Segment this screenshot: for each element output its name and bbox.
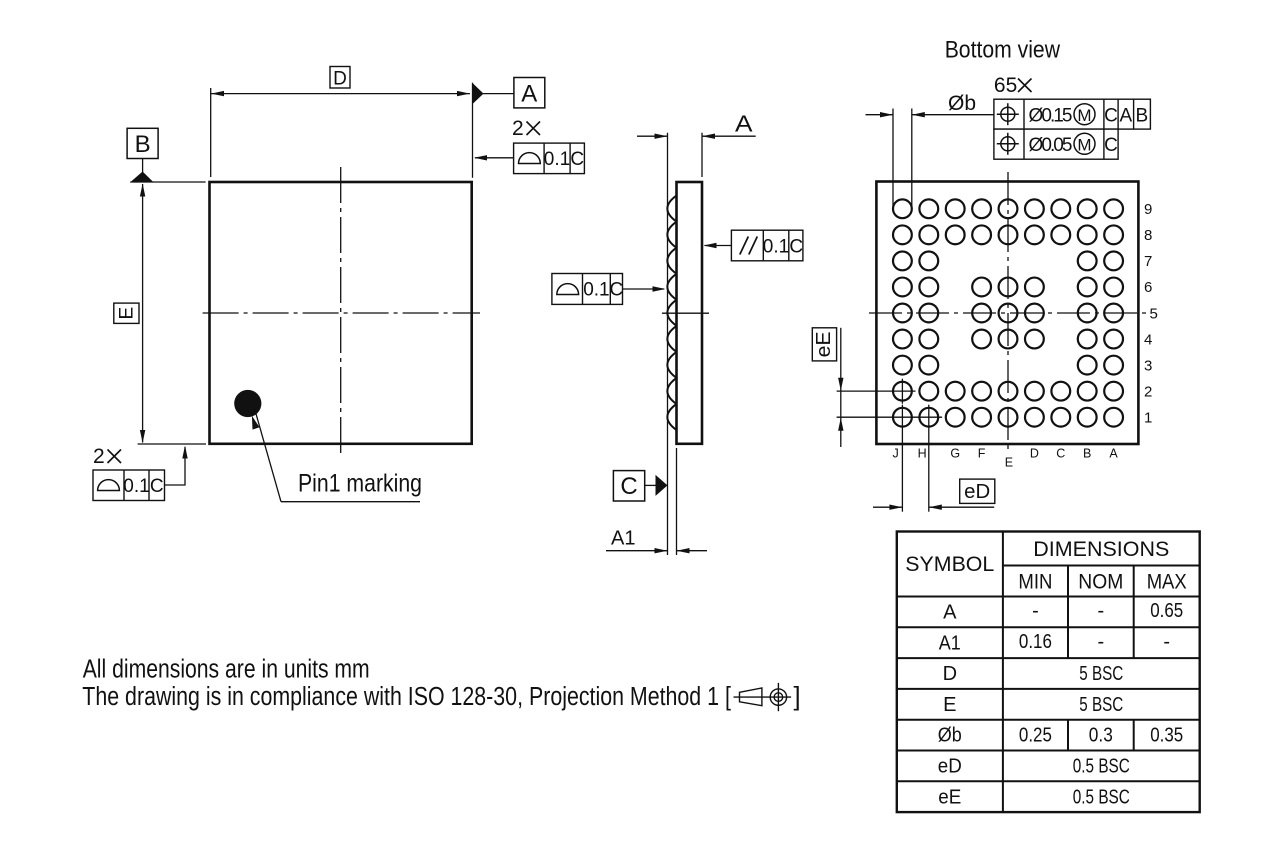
svg-text:C: C	[1104, 135, 1118, 156]
svg-text:Øb: Øb	[948, 92, 976, 115]
note line 2	[82, 683, 731, 711]
svg-text:J: J	[892, 447, 898, 461]
dimension label E box rotated	[114, 303, 139, 323]
2x count label top right	[512, 117, 540, 140]
top view package body outline	[210, 182, 472, 444]
ball row 3	[893, 356, 1123, 375]
eE extension line row 2	[837, 390, 916, 392]
ball row 9	[893, 199, 1123, 218]
svg-text:0.5 BSC: 0.5 BSC	[1073, 756, 1130, 778]
svg-text:NOM: NOM	[1078, 571, 1123, 594]
svg-text:eD: eD	[938, 756, 962, 778]
65x count label	[994, 74, 1032, 97]
svg-text:A1: A1	[611, 528, 636, 550]
svg-text:0.1: 0.1	[123, 476, 149, 497]
table header SYMBOL	[905, 553, 994, 576]
datum B filled triangle	[130, 172, 153, 183]
side view package body outline	[677, 182, 703, 444]
svg-text:9: 9	[1144, 201, 1152, 218]
svg-text:C: C	[610, 280, 624, 301]
dimension label diameter b	[948, 92, 976, 115]
svg-text:eE: eE	[938, 786, 961, 808]
eE extension line row 1	[837, 416, 943, 418]
datum A leader line	[483, 93, 514, 95]
svg-text:A: A	[1109, 447, 1118, 461]
svg-text:Øb: Øb	[938, 725, 962, 747]
datum C leader line	[645, 484, 656, 486]
svg-text:-: -	[1097, 631, 1104, 653]
svg-text:7: 7	[1144, 253, 1152, 270]
eD extension line column H	[928, 405, 930, 512]
svg-text:B: B	[1135, 106, 1148, 127]
eD extension line column J	[901, 405, 903, 512]
datum B label box	[127, 128, 158, 158]
svg-text:0.1: 0.1	[544, 149, 570, 170]
svg-text:H: H	[918, 447, 927, 461]
svg-text:D: D	[1030, 447, 1039, 461]
diameter b dimension arrows	[866, 112, 994, 117]
svg-text:5 BSC: 5 BSC	[1079, 663, 1123, 685]
svg-text:C: C	[620, 473, 637, 500]
leader from bottom left frame up to bottom edge	[165, 446, 188, 486]
svg-text:3: 3	[1144, 357, 1152, 374]
bottom edge extension line	[138, 443, 206, 445]
pin1 leader line with arrowhead	[252, 409, 420, 502]
svg-text:D: D	[943, 663, 957, 685]
svg-text:0.25: 0.25	[1019, 725, 1052, 747]
table header DIMENSIONS	[1033, 538, 1169, 561]
ball J2 center mark vertical	[901, 379, 903, 404]
datum B leader line	[142, 159, 144, 173]
svg-text:-: -	[1097, 600, 1104, 622]
ball row 1	[893, 408, 1123, 427]
svg-text:B: B	[135, 131, 151, 158]
dimension E line with arrowheads	[140, 184, 145, 444]
svg-text:65: 65	[994, 74, 1017, 97]
svg-text:2: 2	[93, 445, 105, 468]
table row eD	[938, 756, 1130, 778]
svg-text:1: 1	[1144, 410, 1152, 427]
eD dimension line with arrowheads	[873, 505, 994, 510]
side view solder ball arcs	[667, 196, 676, 430]
ball row 4	[893, 330, 1123, 349]
dimension A line with arrowheads	[637, 134, 756, 139]
svg-text:A1: A1	[939, 632, 961, 654]
note line 1	[83, 656, 370, 684]
leader arrow from profile frame to ball edge	[623, 286, 666, 291]
column labels J to A	[892, 447, 1118, 470]
svg-text:C: C	[570, 149, 584, 170]
svg-text:All dimensions are in units mm: All dimensions are in units mm	[83, 656, 370, 684]
profile tolerance frame side view	[552, 274, 623, 305]
table row D	[943, 663, 1124, 685]
eE dimension line with arrowheads	[838, 328, 843, 447]
svg-text:-: -	[1163, 631, 1170, 653]
svg-text:M: M	[1077, 106, 1091, 125]
parallelism tolerance frame	[731, 230, 803, 261]
svg-text:4: 4	[1144, 331, 1152, 348]
svg-text:0.16: 0.16	[1019, 631, 1052, 653]
diameter b extension lines	[893, 109, 912, 209]
dimension D extension line left	[210, 88, 212, 177]
svg-text:DIMENSIONS: DIMENSIONS	[1033, 538, 1169, 561]
svg-text:Bottom view: Bottom view	[945, 37, 1061, 64]
svg-text:A: A	[735, 111, 753, 137]
dimension D extension line right	[472, 83, 474, 178]
datum A label box	[514, 78, 545, 108]
table header MAX	[1147, 571, 1187, 594]
svg-text:D: D	[333, 69, 347, 90]
projection method cone symbol	[734, 688, 792, 706]
table row E	[943, 694, 1123, 716]
position tolerance frame row 1	[994, 99, 1151, 129]
svg-text:0.35: 0.35	[1150, 725, 1183, 747]
dimension label A1	[611, 528, 636, 550]
side view center line	[662, 312, 709, 314]
dimension label A side view	[735, 111, 753, 137]
svg-text:A: A	[1119, 106, 1132, 127]
table header MIN	[1018, 571, 1052, 594]
leader arrow from top right frame to edge	[474, 155, 514, 160]
table row A	[943, 600, 1183, 624]
svg-text:C: C	[150, 476, 164, 497]
svg-text:E: E	[117, 307, 138, 320]
svg-text:A: A	[521, 81, 537, 108]
svg-text:G: G	[950, 447, 960, 461]
profile tolerance frame top right	[514, 143, 585, 174]
svg-text:2: 2	[512, 117, 524, 140]
profile tolerance frame bottom left	[93, 470, 165, 501]
top edge extension line for datum B	[130, 181, 205, 183]
svg-text:E: E	[943, 694, 956, 716]
svg-text:6: 6	[1144, 279, 1152, 296]
top view horizontal center line	[203, 312, 480, 314]
svg-text:C: C	[1056, 447, 1065, 461]
svg-text:A: A	[943, 602, 957, 624]
dimension A1 line with arrowheads	[606, 548, 707, 553]
Pin1 marking text label	[298, 470, 422, 498]
side view right extension line	[701, 133, 703, 177]
top view vertical center line	[340, 167, 342, 458]
ball row 5	[893, 304, 1123, 323]
table row A1	[939, 631, 1170, 655]
datum C filled triangle	[656, 475, 668, 496]
package bottom face extension line	[676, 448, 678, 555]
table row eE	[938, 786, 1130, 808]
leader arrow from parallelism frame to right edge	[704, 243, 732, 248]
svg-text:eE: eE	[813, 331, 835, 357]
pin1 marking dot	[234, 390, 261, 417]
svg-text:8: 8	[1144, 227, 1152, 244]
eE dimension label box rotated	[812, 328, 836, 361]
row labels 9 to 1	[1144, 201, 1158, 427]
svg-text:MAX: MAX	[1147, 571, 1187, 594]
datum C label box	[613, 471, 644, 501]
dimension D line with arrowheads	[211, 91, 470, 96]
svg-text:eD: eD	[964, 481, 990, 503]
svg-text:Ø0.15: Ø0.15	[1029, 106, 1073, 127]
svg-text:5: 5	[1150, 305, 1158, 322]
ball row 8	[893, 225, 1123, 244]
svg-text:0.65: 0.65	[1150, 600, 1183, 622]
svg-text:The drawing is in compliance w: The drawing is in compliance with ISO 12…	[82, 683, 731, 711]
note closing bracket	[794, 683, 801, 711]
ball row 7	[893, 252, 1123, 271]
position tolerance frame row 2	[994, 129, 1118, 159]
projection method circle symbol	[770, 683, 786, 711]
dimension label D box	[330, 67, 350, 90]
svg-text:0.3: 0.3	[1089, 725, 1113, 747]
svg-text:F: F	[978, 447, 986, 461]
ball row 2	[893, 382, 1123, 401]
svg-text:E: E	[1005, 456, 1013, 470]
svg-text:B: B	[1083, 447, 1091, 461]
svg-text:]: ]	[794, 683, 801, 711]
svg-text:Ø0.05: Ø0.05	[1029, 135, 1073, 156]
svg-text:SYMBOL: SYMBOL	[905, 553, 994, 576]
svg-text:0.1: 0.1	[763, 237, 789, 258]
table row diameter b	[938, 725, 1183, 747]
bottom view horizontal center line	[869, 312, 1148, 314]
2x count label bottom left	[93, 445, 121, 468]
table header NOM	[1078, 571, 1123, 594]
eD dimension label box	[960, 479, 995, 503]
svg-text:2: 2	[1144, 383, 1152, 400]
Bottom view title	[945, 37, 1061, 64]
bottom view vertical center line	[1007, 172, 1009, 449]
dimensions table grid	[897, 532, 1200, 813]
svg-text:0.1: 0.1	[583, 280, 609, 301]
seating plane tangent extension line	[667, 133, 669, 555]
svg-text:Pin1 marking: Pin1 marking	[298, 470, 422, 498]
svg-text:M: M	[1077, 135, 1091, 154]
svg-text:C: C	[1104, 106, 1118, 127]
ball row 6	[893, 278, 1123, 297]
svg-text:-: -	[1032, 600, 1039, 622]
datum A filled triangle	[473, 83, 484, 104]
svg-text:5 BSC: 5 BSC	[1079, 694, 1123, 716]
svg-text:0.5 BSC: 0.5 BSC	[1073, 786, 1130, 808]
bottom view package outline	[876, 182, 1138, 445]
svg-text:MIN: MIN	[1018, 571, 1052, 594]
svg-text:C: C	[789, 237, 803, 258]
